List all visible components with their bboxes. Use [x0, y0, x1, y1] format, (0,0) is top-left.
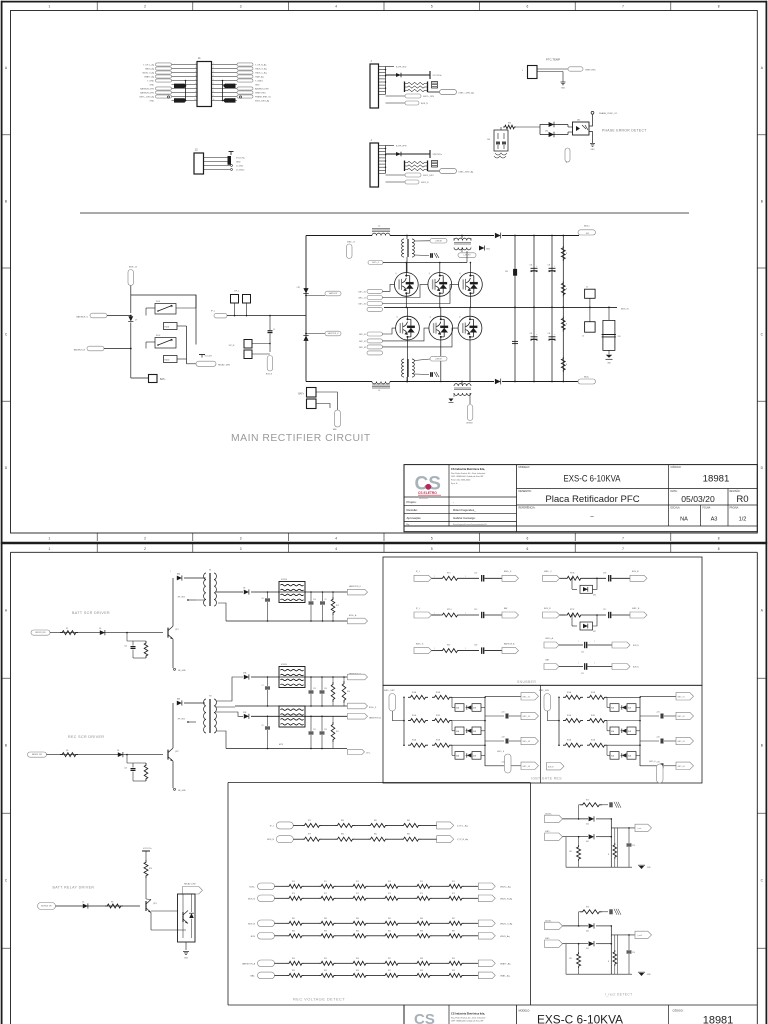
svg-text:VCC12Va: VCC12Va — [236, 157, 246, 159]
svg-text:C9: C9 — [325, 599, 327, 601]
svg-text:EXS-C 6-10KVA: EXS-C 6-10KVA — [537, 1015, 623, 1024]
svg-text:CR1: CR1 — [297, 287, 300, 289]
svg-text:1/2: 1/2 — [739, 517, 747, 523]
svg-text:BUS+_A: BUS+_A — [349, 614, 357, 617]
svg-text:10: 10 — [194, 99, 196, 101]
svg-text:REVISÃO:: REVISÃO: — [730, 490, 741, 493]
svg-text:R16: R16 — [347, 691, 350, 693]
svg-text:3: 3 — [240, 547, 242, 551]
svg-text:BUS_N: BUS_N — [266, 374, 273, 376]
svg-text:D5: D5 — [82, 902, 84, 904]
svg-text:IGBT+_G2: IGBT+_G2 — [358, 304, 366, 306]
svg-text:R72: R72 — [356, 881, 359, 883]
svg-text:R11: R11 — [569, 958, 572, 960]
svg-text:RL02: RL02 — [156, 335, 160, 337]
svg-text:R82: R82 — [407, 820, 410, 822]
svg-text:GND: GND — [150, 84, 155, 86]
svg-text:T_OF_R_Aq: T_OF_R_Aq — [255, 63, 266, 66]
svg-text:BAT/BUS_O: BAT/BUS_O — [76, 316, 88, 319]
svg-text:VCC12V: VCC12V — [205, 356, 213, 358]
svg-text:R99: R99 — [452, 970, 455, 972]
svg-text:HYBRID: HYBRID — [281, 664, 288, 666]
svg-text:R12B: R12B — [591, 740, 595, 742]
svg-text:D41: D41 — [586, 948, 589, 950]
svg-text:BUS_M: BUS_M — [632, 571, 639, 573]
svg-text:B: B — [761, 744, 763, 748]
svg-text:IGBT+_DRV: IGBT+_DRV — [384, 690, 395, 692]
svg-text:BUS: BUS — [586, 233, 589, 235]
svg-text:C24: C24 — [632, 952, 635, 954]
svg-text:GND: GND — [561, 88, 566, 90]
svg-text:R11: R11 — [569, 851, 572, 853]
svg-text:IGBT+_G3: IGBT+_G3 — [523, 741, 531, 743]
svg-text:R11B: R11B — [436, 715, 440, 717]
svg-text:D4B: D4B — [473, 756, 476, 758]
svg-text:IGBT-_DRV: IGBT-_DRV — [423, 175, 434, 177]
svg-text:IGBT+_E: IGBT+_E — [347, 242, 356, 244]
svg-text:IGBT-_G4: IGBT-_G4 — [678, 766, 685, 768]
svg-text:4: 4 — [195, 75, 196, 77]
svg-text:VBUS_Aq: VBUS_Aq — [500, 935, 510, 938]
svg-text:RT6: RT6 — [586, 906, 589, 908]
svg-text:VBUS+_Aq: VBUS+_Aq — [500, 885, 511, 888]
svg-text:Gabriel Camargo.: Gabriel Camargo. — [453, 516, 476, 520]
svg-text:RL01: RL01 — [156, 301, 160, 303]
svg-text:BAT/BUS_DRV: BAT/BUS_DRV — [255, 87, 269, 90]
svg-text:3: 3 — [240, 537, 242, 541]
svg-text:IGBT+_C1: IGBT+_C1 — [358, 298, 366, 300]
svg-text:SP4: SP4 — [505, 271, 508, 273]
svg-text:CS Indústria Eletrônica ltda,: CS Indústria Eletrônica ltda, — [451, 1012, 485, 1016]
svg-text:HF_GND: HF_GND — [178, 790, 186, 792]
svg-text:R96: R96 — [356, 970, 359, 972]
svg-text:VBATT_Aq: VBATT_Aq — [144, 75, 154, 78]
svg-text:T_GND: T_GND — [147, 80, 154, 82]
svg-text:BUS: BUS — [251, 936, 256, 938]
svg-text:R11B: R11B — [591, 715, 595, 717]
svg-text:PHASE_SYNC_OC: PHASE_SYNC_OC — [599, 112, 618, 115]
svg-text:L-SHUNT: L-SHUNT — [435, 358, 442, 360]
svg-text:REFERÊNCIA:: REFERÊNCIA: — [519, 507, 536, 510]
svg-text:IGBT-_G2: IGBT-_G2 — [359, 341, 366, 343]
svg-text:D40: D40 — [586, 823, 589, 825]
svg-text:BUS_N: BUS_N — [548, 766, 554, 768]
svg-text:C20: C20 — [324, 729, 327, 731]
svg-text:I2_GND2: I2_GND2 — [236, 169, 245, 171]
svg-text:TBAT_Aq: TBAT_Aq — [255, 75, 264, 78]
svg-text:IGBT+_G4: IGBT+_G4 — [523, 766, 531, 768]
svg-text:6: 6 — [527, 537, 529, 541]
svg-text:Rua Pedro Farhat, 60 - Distr.: Rua Pedro Farhat, 60 - Distr. Industrial — [451, 1016, 486, 1019]
svg-text:A3: A3 — [711, 517, 718, 523]
svg-text:BDR+_B: BDR+_B — [129, 267, 138, 269]
svg-text:C15: C15 — [313, 688, 316, 690]
svg-text:Aprovação:: Aprovação: — [407, 516, 422, 520]
svg-text:3: 3 — [240, 5, 242, 9]
svg-text:R83: R83 — [324, 918, 327, 920]
svg-text:SNUBBER: SNUBBER — [517, 680, 536, 684]
svg-text:VARISTOR: VARISTOR — [329, 292, 338, 295]
svg-text:V_IP_N_Aq: V_IP_N_Aq — [457, 838, 469, 841]
svg-text:18981: 18981 — [703, 1015, 734, 1024]
svg-text:BUS+_K: BUS+_K — [369, 707, 377, 709]
svg-text:C19: C19 — [474, 609, 477, 611]
svg-text:Rideri Fagundes_: Rideri Fagundes_ — [453, 508, 476, 512]
svg-text:RD02: RD02 — [165, 360, 170, 362]
svg-text:5: 5 — [431, 5, 433, 9]
svg-text:VARISTOR_A: VARISTOR_A — [242, 962, 256, 965]
svg-text:B: B — [761, 199, 763, 203]
svg-text:3: 3 — [195, 71, 196, 73]
svg-text:C13: C13 — [124, 768, 127, 770]
svg-text:B: B — [5, 744, 7, 748]
svg-text:VBUS_O_Aq: VBUS_O_Aq — [142, 71, 154, 74]
svg-text:I_rect: I_rect — [636, 827, 641, 830]
svg-text:R87: R87 — [452, 930, 455, 932]
svg-text:Rua Pedro Farhat, 60 - Distr.: Rua Pedro Farhat, 60 - Distr. Industrial — [451, 472, 486, 475]
svg-text:1/P_L: 1/P_L — [234, 291, 240, 293]
svg-text:C17: C17 — [603, 609, 606, 611]
svg-text:GND: GND — [236, 161, 241, 163]
svg-text:R73: R73 — [388, 881, 391, 883]
svg-text:REC VOLTAGE DETECT: REC VOLTAGE DETECT — [293, 997, 345, 1002]
svg-text:IGBT-_G3: IGBT-_G3 — [359, 347, 366, 349]
svg-text:VARISTOR_N: VARISTOR_N — [328, 332, 339, 335]
svg-text:2: 2 — [144, 537, 146, 541]
svg-text:TBUS_C_Aq: TBUS_C_Aq — [255, 71, 266, 74]
svg-text:C34: C34 — [530, 265, 533, 267]
svg-text:RT14: RT14 — [447, 609, 451, 611]
svg-text:QP3: QP3 — [153, 903, 157, 905]
svg-text:V_IP_L_Aq: V_IP_L_Aq — [457, 824, 468, 827]
svg-text:R82: R82 — [407, 834, 410, 836]
svg-text:05/03/20: 05/03/20 — [681, 494, 715, 504]
svg-text:CEP: 08586-600 Cidade de Sua./: CEP: 08586-600 Cidade de Sua./SP — [451, 1021, 484, 1023]
svg-text:BAT-: BAT- — [333, 428, 337, 431]
svg-text:B_HF_VPN: B_HF_VPN — [396, 145, 407, 147]
svg-text:R73: R73 — [388, 893, 391, 895]
svg-text:BUS+: BUS+ — [250, 886, 256, 888]
svg-text:L-SHUNT: L-SHUNT — [435, 240, 442, 242]
svg-text:IP_L: IP_L — [416, 571, 420, 573]
svg-text:HYBRID: HYBRID — [281, 579, 288, 581]
svg-text:T_OF_L_Aq: T_OF_L_Aq — [143, 63, 154, 66]
svg-text:+C32: +C32 — [501, 737, 505, 739]
svg-text:VBUS_Aq: VBUS_Aq — [145, 67, 154, 70]
svg-text:BUS_N: BUS_N — [544, 608, 551, 610]
svg-text:R99: R99 — [452, 958, 455, 960]
svg-text:1/P_N: 1/P_N — [229, 345, 235, 347]
svg-text:PHASE ERROR DETECT: PHASE ERROR DETECT — [602, 129, 647, 133]
svg-text:BDR+_A: BDR+_A — [546, 637, 554, 640]
svg-text:C98: C98 — [618, 336, 621, 338]
svg-text:VBAT-_Aq: VBAT-_Aq — [500, 974, 510, 977]
svg-text:I_rect DETECT: I_rect DETECT — [605, 993, 633, 997]
svg-text:C11: C11 — [313, 729, 316, 731]
svg-text:R8: R8 — [66, 750, 68, 752]
svg-text:R0: R0 — [736, 494, 748, 505]
svg-text:IGBT-_DRV: IGBT-_DRV — [539, 690, 550, 692]
svg-text:C34: C34 — [548, 333, 551, 335]
svg-text:R80: R80 — [341, 820, 344, 822]
svg-text:VPETVPa: VPETVPa — [433, 154, 443, 156]
svg-text:BUS-: BUS- — [584, 377, 589, 379]
svg-text:D37: D37 — [593, 631, 596, 633]
svg-text:VARISTOR_O: VARISTOR_O — [349, 585, 362, 588]
svg-text:1: 1 — [195, 63, 196, 65]
svg-text:R85: R85 — [388, 930, 391, 932]
svg-text:R94: R94 — [292, 958, 295, 960]
svg-text:C34: C34 — [548, 265, 551, 267]
svg-text:T_GND1: T_GND1 — [255, 80, 264, 82]
svg-text:HF_GND: HF_GND — [178, 670, 186, 672]
svg-text:BATT RELAY DRIVER: BATT RELAY DRIVER — [53, 886, 95, 890]
svg-text:4: 4 — [335, 5, 337, 9]
svg-text:D41: D41 — [586, 841, 589, 843]
svg-text:R13: R13 — [336, 605, 339, 607]
svg-text:8: 8 — [718, 547, 720, 551]
svg-text:2: 2 — [144, 5, 146, 9]
svg-text:BUS_N: BUS_N — [267, 839, 274, 841]
svg-text:6: 6 — [195, 83, 196, 85]
svg-text:ESCALA:: ESCALA: — [671, 507, 681, 510]
svg-text:2: 2 — [195, 67, 196, 69]
svg-text:5: 5 — [431, 547, 433, 551]
svg-text:R75: R75 — [452, 881, 455, 883]
svg-text:2: 2 — [144, 547, 146, 551]
svg-text:R79: R79 — [308, 834, 311, 836]
svg-text:RT3: RT3 — [447, 572, 450, 574]
svg-text:R83: R83 — [324, 930, 327, 932]
svg-text:R75: R75 — [452, 893, 455, 895]
svg-text:+C32: +C32 — [656, 737, 660, 739]
svg-text:EXS-C 6-10KVA: EXS-C 6-10KVA — [564, 474, 621, 485]
svg-text:7: 7 — [195, 87, 196, 89]
svg-text:R70: R70 — [149, 868, 152, 870]
svg-text:IP_L: IP_L — [416, 608, 420, 610]
svg-text:C14: C14 — [124, 646, 127, 648]
svg-text:Placa Retificador PFC: Placa Retificador PFC — [545, 494, 639, 505]
svg-text:8: 8 — [718, 5, 720, 9]
svg-text:IGBT+_C: IGBT+_C — [544, 571, 553, 573]
svg-text:C6: C6 — [262, 725, 264, 727]
svg-text:R98: R98 — [420, 958, 423, 960]
svg-text:VBUS_O_Aq: VBUS_O_Aq — [500, 922, 513, 925]
svg-text:J5: J5 — [586, 287, 588, 289]
svg-text:BUS_N: BUS_N — [633, 645, 639, 647]
svg-text:PHASE_ERR_OC: PHASE_ERR_OC — [255, 95, 272, 98]
svg-text:BUS_N: BUS_N — [248, 898, 255, 900]
svg-text:D7: D7 — [135, 320, 137, 322]
svg-text:RT36: RT36 — [570, 572, 574, 574]
svg-text:R82: R82 — [292, 918, 295, 920]
svg-text:D4B: D4B — [473, 708, 476, 710]
svg-text:D8: D8 — [243, 588, 245, 590]
svg-text:R6: R6 — [111, 902, 113, 904]
svg-text:IGBT+_G2: IGBT+_G2 — [523, 716, 531, 718]
svg-text:D4B: D4B — [473, 731, 476, 733]
svg-text:R86: R86 — [420, 918, 423, 920]
svg-text:PÁGINA:: PÁGINA: — [730, 507, 740, 510]
svg-text:R87: R87 — [452, 918, 455, 920]
svg-text:SeriesOrganizeProcessDocuments: SeriesOrganizeProcessDocumentswrittenDS. — [453, 523, 488, 526]
svg-text:R80: R80 — [341, 834, 344, 836]
svg-text:R84: R84 — [356, 918, 359, 920]
svg-text:RT5: RT5 — [586, 799, 589, 801]
svg-text:J: J — [522, 70, 523, 72]
svg-text:IGBT-_G1: IGBT-_G1 — [678, 697, 685, 699]
svg-text:R17: R17 — [336, 731, 339, 733]
svg-text:8: 8 — [718, 537, 720, 541]
svg-text:R60: R60 — [508, 123, 511, 125]
svg-text:IGBT+_G1: IGBT+_G1 — [523, 697, 531, 699]
svg-text:VCC12V+: VCC12V+ — [143, 848, 153, 850]
svg-text:QP2: QP2 — [175, 751, 179, 753]
svg-text:BUS_N: BUS_N — [633, 667, 639, 669]
svg-text:C20: C20 — [581, 652, 584, 654]
svg-text:CÓDIGO:: CÓDIGO: — [673, 1010, 684, 1013]
svg-text:GND: GND — [184, 958, 189, 960]
svg-text:C10: C10 — [313, 599, 316, 601]
svg-text:R86: R86 — [420, 930, 423, 932]
svg-text:R82: R82 — [292, 930, 295, 932]
svg-text:R74: R74 — [420, 881, 423, 883]
svg-text:C24: C24 — [632, 845, 635, 847]
svg-text:RD01: RD01 — [165, 327, 170, 329]
svg-text:BAT-: BAT- — [251, 974, 256, 977]
svg-text:TBUS_O_Aq: TBUS_O_Aq — [255, 67, 267, 70]
svg-text:4: 4 — [335, 537, 337, 541]
svg-text:VBUS_N_Aq: VBUS_N_Aq — [500, 897, 513, 900]
svg-text:R96: R96 — [356, 958, 359, 960]
svg-text:CÓDIGO:: CÓDIGO: — [671, 466, 682, 469]
svg-text:8: 8 — [195, 91, 196, 93]
svg-text:R72: R72 — [356, 893, 359, 895]
svg-text:CP_L: CP_L — [366, 753, 371, 755]
svg-text:IGBT+_E: IGBT+_E — [497, 751, 505, 753]
svg-text:C39: C39 — [603, 572, 606, 574]
svg-text:D4B: D4B — [628, 756, 631, 758]
svg-text:C16: C16 — [324, 688, 327, 690]
svg-text:R95: R95 — [324, 958, 327, 960]
svg-text:HF_VDD: HF_VDD — [178, 719, 186, 721]
svg-text:BAT/BUS_B: BAT/BUS_B — [74, 349, 86, 352]
svg-text:DESENHO:: DESENHO: — [519, 490, 532, 493]
svg-text:10: 10 — [213, 99, 215, 101]
svg-text:MODELO:: MODELO: — [519, 1010, 531, 1013]
svg-text:R10B: R10B — [591, 692, 595, 694]
svg-text:R74: R74 — [420, 893, 423, 895]
svg-text:1: 1 — [49, 5, 51, 9]
svg-text:R7: R7 — [66, 628, 68, 630]
svg-text:C34: C34 — [530, 333, 533, 335]
svg-text:R98: R98 — [420, 970, 423, 972]
svg-text:IGBT+_DRV_Aq: IGBT+_DRV_Aq — [459, 92, 475, 95]
svg-text:R10B: R10B — [436, 692, 440, 694]
svg-text:IGBT-_G3: IGBT-_G3 — [678, 741, 685, 743]
svg-text:6: 6 — [527, 547, 529, 551]
svg-text:FOLHA:: FOLHA: — [703, 507, 712, 510]
svg-text:By:: By: — [407, 524, 410, 526]
svg-text:C21: C21 — [581, 673, 584, 675]
svg-text:D36: D36 — [593, 594, 596, 596]
svg-text:MAIN RECTIFIER CIRCUIT: MAIN RECTIFIER CIRCUIT — [231, 433, 371, 444]
svg-text:IGBT-_B: IGBT-_B — [632, 608, 640, 610]
svg-text:B: B — [566, 162, 567, 164]
svg-text:IGBT-_E: IGBT-_E — [649, 761, 656, 763]
svg-text:REC SCR DRIVER: REC SCR DRIVER — [68, 735, 104, 739]
svg-text:GND: GND — [486, 249, 491, 251]
svg-text:RELAY_DRV: RELAY_DRV — [218, 364, 231, 367]
svg-text:QP1: QP1 — [175, 629, 179, 631]
svg-text:BUS_B: BUS_B — [248, 923, 255, 925]
svg-text:TEMP_REC: TEMP_REC — [585, 70, 596, 72]
svg-text:R85: R85 — [388, 918, 391, 920]
svg-text:CS Indústria Eletrônica ltda,: CS Indústria Eletrônica ltda, — [451, 467, 485, 471]
svg-text:R81: R81 — [374, 820, 377, 822]
svg-text:BDR+_K: BDR+_K — [416, 643, 424, 645]
svg-text:GND: GND — [255, 84, 260, 86]
svg-text:Fone: (11) 3333-4000: Fone: (11) 3333-4000 — [451, 480, 471, 482]
svg-text:9: 9 — [195, 95, 196, 97]
svg-text:B_HF_VDD: B_HF_VDD — [396, 66, 407, 68]
svg-text:R71: R71 — [324, 881, 327, 883]
svg-text:R71: R71 — [324, 893, 327, 895]
svg-text:I-SHUNT: I-SHUNT — [466, 423, 473, 425]
svg-text:5: 5 — [431, 537, 433, 541]
svg-text:D4B: D4B — [628, 731, 631, 733]
svg-text:BAT/BUS_DRV: BAT/BUS_DRV — [140, 91, 154, 94]
svg-text:RELAY_DRV: RELAY_DRV — [184, 883, 196, 886]
svg-text:IGBT-_G1: IGBT-_G1 — [359, 334, 366, 336]
svg-text:GND: GND — [591, 149, 596, 151]
svg-text:D4: D4 — [117, 750, 119, 752]
svg-text:IGBT-_E: IGBT-_E — [421, 182, 429, 184]
svg-text:R97: R97 — [388, 958, 391, 960]
svg-text:R32: R32 — [447, 645, 450, 647]
svg-text:R81: R81 — [374, 834, 377, 836]
svg-text:D6: D6 — [99, 628, 101, 630]
svg-text:VARISTOR_B: VARISTOR_B — [369, 717, 382, 720]
svg-text:R97: R97 — [388, 970, 391, 972]
svg-text:IGBT-_DRV_Aq: IGBT-_DRV_Aq — [459, 171, 474, 174]
svg-text:+C31: +C31 — [501, 712, 505, 714]
svg-text:R94: R94 — [292, 970, 295, 972]
svg-text:TEMP_REC: TEMP_REC — [255, 92, 266, 94]
svg-text:Projeto:: Projeto: — [407, 500, 417, 504]
svg-text:C22: C22 — [474, 572, 477, 574]
svg-text:IGBT-_DRV_Aq: IGBT-_DRV_Aq — [255, 99, 269, 102]
svg-text:C1: C1 — [273, 329, 275, 331]
svg-text:BATT SCR DRIVER: BATT SCR DRIVER — [72, 611, 110, 615]
svg-text:C68: C68 — [487, 139, 490, 141]
svg-text:BDR+_K: BDR+_K — [504, 571, 512, 573]
svg-text:R70: R70 — [292, 881, 295, 883]
svg-text:VCC12Va: VCC12Va — [433, 75, 443, 77]
svg-text:Revisão:: Revisão: — [407, 508, 418, 512]
svg-text:Fyre: E: Fyre: E — [451, 483, 458, 485]
svg-text:IGBT+_G1: IGBT+_G1 — [358, 291, 366, 293]
svg-text:18981: 18981 — [703, 474, 730, 485]
svg-text:1: 1 — [49, 547, 51, 551]
svg-text:D4B: D4B — [628, 708, 631, 710]
svg-text:CS ELETRO: CS ELETRO — [418, 491, 437, 495]
svg-text:R84: R84 — [356, 930, 359, 932]
svg-text:PTC.TEMP: PTC.TEMP — [546, 58, 560, 62]
svg-text:VBATT_Aq: VBATT_Aq — [500, 962, 511, 965]
svg-text:I_rect2: I_rect2 — [636, 934, 642, 937]
svg-text:IGBT+_DRV_Aq: IGBT+_DRV_Aq — [139, 95, 154, 98]
